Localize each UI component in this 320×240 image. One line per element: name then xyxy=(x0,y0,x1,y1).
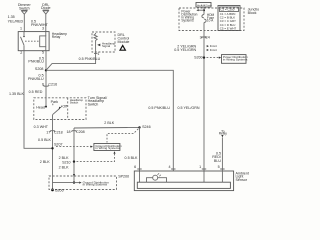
label: 0.5 YEL/GRN at sensor drop xyxy=(178,106,200,110)
label: 0.5 BLK xyxy=(38,138,52,142)
label: 0.5 PNK/BLU on module branch xyxy=(79,57,101,61)
module internal input line with zigzag xyxy=(94,33,97,54)
label: DRL Control Module xyxy=(118,33,130,44)
label: To Relay xyxy=(219,129,228,135)
label: S208 xyxy=(35,67,44,71)
splice S200 xyxy=(203,56,205,58)
svg-text:Diode: Diode xyxy=(41,6,51,10)
sensor pin numbers xyxy=(134,165,136,169)
dashed ref: S210 up to ground distribution box xyxy=(77,151,116,161)
arrow to ground distribution text xyxy=(74,182,82,184)
splice S208 xyxy=(45,69,47,71)
svg-text:10 A: 10 A xyxy=(207,19,214,23)
label: Ambient Light Sensor xyxy=(236,171,249,182)
dashed ref: S200 to power distribution box xyxy=(207,57,222,59)
svg-text:0.5 PNK/BLU: 0.5 PNK/BLU xyxy=(79,57,101,61)
sensor pin stubs inside box xyxy=(221,171,223,182)
svg-text:in Wiring Systems: in Wiring Systems xyxy=(95,146,120,150)
wire: fuse down through C4, S200 to sensor pin 1 (YEL/GRN) xyxy=(203,23,205,183)
sensor inner resistor body xyxy=(137,182,230,188)
svg-text:Hot At All Times: Hot At All Times xyxy=(197,4,212,7)
connector C218 pin 17 xyxy=(46,131,50,135)
legend box in junction block xyxy=(218,6,240,31)
svg-text:3: 3 xyxy=(200,35,202,39)
svg-text:6: 6 xyxy=(42,83,44,87)
svg-text:2 BLK: 2 BLK xyxy=(104,121,114,125)
svg-text:Block: Block xyxy=(248,11,257,15)
switch head contact dot xyxy=(45,106,47,108)
label: 0.5 RED/BLU xyxy=(212,151,222,163)
label: Power Distribution (junction block) xyxy=(181,10,197,23)
wire: 2 BLK from C208 down through S210 to ground splice point xyxy=(73,128,75,183)
svg-text:Park: Park xyxy=(51,100,59,104)
svg-text:0.5 YEL/GRN: 0.5 YEL/GRN xyxy=(174,48,196,52)
svg-text:1.35: 1.35 xyxy=(8,15,15,19)
connector C208 tick xyxy=(72,131,76,132)
ground distribution box text xyxy=(95,144,122,150)
label: Dimmer Switch xyxy=(18,3,32,10)
label: Junction Block xyxy=(248,8,262,15)
label: 2 BLK above S210 xyxy=(59,156,69,160)
relay coil xyxy=(40,32,46,51)
svg-text:S200: S200 xyxy=(194,56,203,60)
svg-text:in Wiring Systems: in Wiring Systems xyxy=(223,57,248,61)
wire: relay pin2 to S207 (1.35 BLK) xyxy=(24,51,53,149)
wire: switch pivot down to G200 (0.3 WHT / 0.5 BLK / 2 BLK) xyxy=(52,115,54,190)
label: S207 xyxy=(54,143,63,147)
svg-text:18: 18 xyxy=(66,130,70,134)
label: DRL Diode xyxy=(41,3,51,10)
svg-text:C216: C216 xyxy=(48,83,57,87)
label: 0.3 WHT xyxy=(34,125,49,129)
label: 0.5 PNK/BLU below S208 xyxy=(28,73,44,80)
label: 2 BLK below S210 xyxy=(59,166,69,170)
wire: S246 down to sensor pin 6 (0.5 BLK) xyxy=(139,127,141,182)
svg-text:S246: S246 xyxy=(142,125,151,129)
svg-text:17: 17 xyxy=(46,131,50,135)
label: S210 xyxy=(62,160,71,164)
svg-text:Relay: Relay xyxy=(219,132,228,136)
wire: S208 long run right to sensor pin 4 xyxy=(46,70,173,171)
relay switch contact pin 1 xyxy=(21,32,25,51)
dashed internal divider xyxy=(67,98,69,120)
svg-text:C4: C4 xyxy=(205,35,210,39)
svg-text:Signal: Signal xyxy=(102,44,110,48)
DRL Control Module dashed box xyxy=(92,32,115,52)
svg-text:Systems: Systems xyxy=(181,18,194,22)
svg-text:C5 = E WHT: C5 = E WHT xyxy=(220,26,237,30)
svg-text:1.35 BLK: 1.35 BLK xyxy=(9,92,25,96)
label: 0.5 PNK/WHT xyxy=(31,20,49,27)
svg-text:1: 1 xyxy=(20,27,22,31)
label: 1.35 YEL/RED xyxy=(8,15,24,23)
connector C216 pin 6 xyxy=(42,83,44,87)
svg-text:S208: S208 xyxy=(35,67,44,71)
svg-text:1: 1 xyxy=(199,165,201,169)
svg-text:Head: Head xyxy=(36,105,45,109)
label: 0.5 PNK/BLU at sensor drop xyxy=(148,106,170,110)
switch position labels xyxy=(51,100,59,104)
junction dot at ground bus xyxy=(73,181,75,183)
svg-text:C2 = C200: C2 = C200 xyxy=(220,8,234,12)
wire: S208 branch to DRL module pin xyxy=(46,53,96,70)
svg-text:0.5 YEL/GRN: 0.5 YEL/GRN xyxy=(178,106,200,110)
svg-text:0.5 BLK: 0.5 BLK xyxy=(125,156,139,160)
switch lever with arrow xyxy=(53,107,62,115)
svg-text:2: 2 xyxy=(20,51,22,55)
label: Headlamp Relay xyxy=(52,32,67,39)
label: 0.5 PNK/BLU above S208 xyxy=(28,56,44,63)
svg-text:5: 5 xyxy=(218,165,220,169)
label: 2 BLK (sensor ground) xyxy=(104,121,114,125)
svg-text:PNK/WHT: PNK/WHT xyxy=(31,23,49,27)
svg-text:2 BLK: 2 BLK xyxy=(40,160,50,164)
wire: relay pin5 down to headlamp switch (0.5 PNK/BLU) xyxy=(45,51,47,107)
relay actuating dashed link xyxy=(25,40,40,42)
svg-text:PNK/BLU: PNK/BLU xyxy=(28,60,44,64)
wire: RED/BLU to sensor pin 5 with feed arrow xyxy=(221,135,223,171)
dashed ref: S207 to ground distribution box xyxy=(56,146,93,148)
svg-text:Relay: Relay xyxy=(52,35,61,39)
label: Headlamp Switch (inner) xyxy=(70,98,84,104)
splice S246 xyxy=(138,126,140,128)
label: Turn Signal/Headlamp Switch xyxy=(88,96,108,107)
banner text xyxy=(197,4,212,7)
fuse HDM 10A xyxy=(202,15,206,23)
label: 2 BLK (left wire) xyxy=(40,160,50,164)
svg-text:Sensor: Sensor xyxy=(236,178,248,182)
SP200 dashed region xyxy=(49,176,117,190)
connector C4 pin 3 xyxy=(200,35,202,39)
svg-text:G200: G200 xyxy=(55,188,64,192)
connector C218 tick xyxy=(50,131,54,132)
module pin 1 xyxy=(97,52,99,56)
park position tick xyxy=(52,104,54,106)
arrow to power distribution text xyxy=(196,9,204,11)
label: G200 xyxy=(55,188,64,192)
wire from banner through fuse down xyxy=(203,7,205,15)
svg-text:0.3 WHT: 0.3 WHT xyxy=(34,125,49,129)
relay K: Headlamp Relay box xyxy=(18,32,49,51)
connector C4 tick xyxy=(202,37,206,38)
power distribution box (right) xyxy=(222,55,247,64)
svg-text:0.5 RED: 0.5 RED xyxy=(29,90,43,94)
svg-text:3: 3 xyxy=(42,26,44,30)
arrowhead entering ground distribution area xyxy=(73,174,75,177)
svg-text:0.5 PNK/BLU: 0.5 PNK/BLU xyxy=(148,106,170,110)
svg-text:5: 5 xyxy=(42,51,44,55)
sensor photocell circle xyxy=(147,173,167,182)
dest arrows right of YEL/GRN wire xyxy=(207,45,209,51)
module signal arrow xyxy=(97,44,100,47)
svg-text:Module: Module xyxy=(118,40,130,44)
connector C208 pin 18 xyxy=(66,130,70,134)
label: HDM Fuse 10 A xyxy=(207,13,215,23)
svg-text:YEL/RED: YEL/RED xyxy=(8,19,24,23)
relay pin numbers xyxy=(20,27,22,31)
svg-text:C208: C208 xyxy=(76,130,85,134)
power distribution box text xyxy=(223,55,248,61)
hot at all times banner xyxy=(196,3,211,8)
label: SP200 xyxy=(118,174,129,178)
svg-text:S210: S210 xyxy=(62,160,71,164)
triangle logo of DRL module xyxy=(119,44,126,51)
label: 1.35 BLK xyxy=(9,92,25,96)
ground G200 xyxy=(51,189,54,192)
sensor pin ticks xyxy=(137,168,224,170)
svg-text:2 BLK: 2 BLK xyxy=(59,166,69,170)
off-page arrow: DRL Diode xyxy=(43,10,49,32)
legend rows xyxy=(220,8,234,12)
node at power feed xyxy=(203,9,205,11)
label: Headlamp Signal xyxy=(102,41,116,47)
dashed ref: S246 to ground distribution box xyxy=(107,129,138,143)
label: S200 xyxy=(194,56,203,60)
off-page arrow: Dimmer Switch xyxy=(21,10,27,31)
label: 0.5 RED xyxy=(29,90,43,94)
label: 0.5 BLK (sensor) xyxy=(125,156,139,160)
svg-text:Front: Front xyxy=(210,48,217,52)
label: 0.5 YEL/GRN xyxy=(174,48,196,52)
Turn Signal/Headlamp Switch dashed box xyxy=(34,98,86,120)
label: S246 xyxy=(142,125,151,129)
svg-text:Switch: Switch xyxy=(19,6,30,10)
junction block dashed box xyxy=(179,8,244,31)
svg-text:in Wiring Systems: in Wiring Systems xyxy=(83,182,108,186)
svg-text:SP200: SP200 xyxy=(118,174,129,178)
svg-text:6: 6 xyxy=(134,165,136,169)
svg-text:Switch: Switch xyxy=(88,103,99,107)
svg-text:PNK/BLU: PNK/BLU xyxy=(28,77,44,81)
ambient light sensor box xyxy=(134,171,233,191)
svg-text:S207: S207 xyxy=(54,143,63,147)
wire: ground bus to G200 drop xyxy=(53,182,75,184)
svg-text:2 BLK: 2 BLK xyxy=(59,156,69,160)
svg-text:Switch: Switch xyxy=(70,100,79,104)
splice S210 xyxy=(73,160,75,162)
svg-text:1: 1 xyxy=(97,52,99,56)
connector C216 tick on 0.5 PNK/BLU wire xyxy=(44,85,49,86)
off position tick xyxy=(60,106,62,108)
splice S207 xyxy=(51,147,53,149)
svg-text:0.5 BLK: 0.5 BLK xyxy=(38,138,52,142)
label: 2 YEL/GRN xyxy=(177,44,196,48)
svg-text:4: 4 xyxy=(168,165,170,169)
svg-text:C218: C218 xyxy=(54,131,63,135)
dest arrow labels xyxy=(210,44,217,48)
ground distribution box (middle) xyxy=(94,144,120,151)
label: ground distribution text (bottom) xyxy=(83,180,110,186)
wire: sensor ground 2 BLK horizontal to S246 xyxy=(74,126,140,129)
svg-text:BLU: BLU xyxy=(214,159,221,163)
